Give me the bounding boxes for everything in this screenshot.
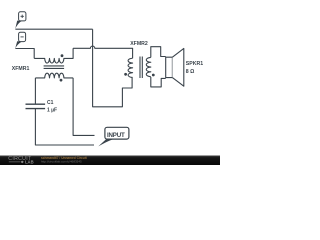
XFMR2 primary dot [124,73,127,76]
XFMR1 secondary winding (bottom) [35,73,73,78]
transformer XFMR1 [34,48,73,81]
transformer XFMR2 [124,57,155,79]
svg-text:LAB: LAB [25,160,34,165]
svg-text:8 Ω: 8 Ω [186,69,195,75]
svg-text:http://circuitlab.com/c/468354: http://circuitlab.com/c/4683545 [41,160,82,164]
svg-text:XFMR1: XFMR1 [12,66,30,72]
XFMR2 primary winding (left, stem right arcs left) [128,58,133,77]
wire XFMR2 secondary bottom to speaker bottom [151,77,166,87]
flag - (node V-) [15,32,25,48]
XFMR1 primary winding (top) [34,48,73,63]
svg-text:SPKR1: SPKR1 [186,61,203,67]
XFMR1 primary dot [61,54,64,57]
svg-text:INPUT: INPUT [107,132,125,139]
svg-text:C1: C1 [47,100,54,106]
speaker SPKR1 [166,48,184,86]
footer bar [0,156,220,166]
flag INPUT [98,127,129,146]
XFMR1 secondary dot [60,79,63,82]
XFMR2 core [140,57,142,79]
wire XFMR1 secondary left down to capacitor [34,78,36,104]
wire net V+ : vertical from wire A down, under hop, to XFMR2 primary bottom [93,29,133,107]
svg-text:XFMR2: XFMR2 [130,41,148,47]
wire net V- : XFMR1 primary right to XFMR2 primary top, with hop over vertical wire [73,46,133,58]
wire XFMR1 secondary right down to upper input stub [73,78,94,135]
wire B (from - flag to XFMR1 primary left) [15,49,34,59]
flag + (node V+) [15,12,26,29]
wire A (top, from + flag to right) [15,28,92,30]
capacitor C1 [26,104,46,108]
svg-text:1 µF: 1 µF [47,107,57,113]
XFMR1 core [44,66,65,69]
wire C1 bottom to lower input stub [35,109,94,145]
XFMR2 secondary dot [152,74,155,77]
wire XFMR2 secondary top to speaker top [151,47,166,58]
XFMR2 secondary winding (right, stem right arcs left) [146,57,151,76]
